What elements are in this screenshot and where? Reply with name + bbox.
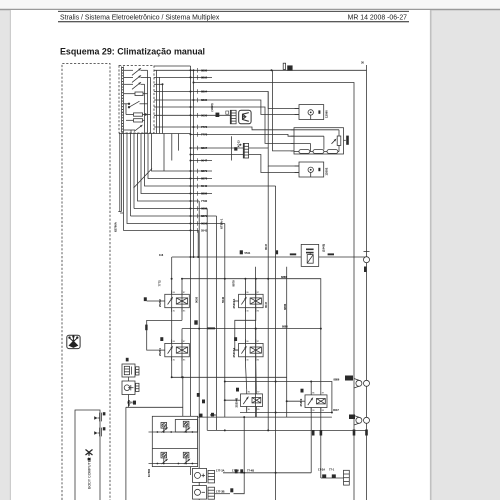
relay column wire 87 R3 [181, 329, 183, 378]
lamp cluster box [152, 416, 197, 466]
drop 309 to relay [310, 382, 312, 391]
wire row 30 feed [154, 69, 367, 71]
rotated component and wire labels [114, 103, 329, 477]
lamp cluster corner mark [199, 414, 202, 418]
svg-text:8886: 8886 [281, 275, 287, 279]
wire to resistor pack pin2 [191, 134, 295, 136]
lamp L1 [161, 423, 167, 433]
wire to aux motor pin1 [191, 148, 300, 166]
relay column links R6 down [311, 408, 343, 479]
drop wire 125 [125, 407, 127, 500]
panel resistor R3 [126, 119, 145, 122]
relay wire 412 [240, 412, 332, 414]
relay 25204B [237, 390, 263, 411]
drop from top feed to resistor pack pin4 [273, 70, 295, 151]
svg-text:7772: 7772 [158, 280, 162, 287]
svg-text:BODY COMPUTER: BODY COMPUTER [88, 457, 92, 489]
svg-text:0047: 0047 [264, 243, 268, 250]
lamp L4 [183, 452, 189, 464]
bus B vertical [193, 70, 195, 257]
stair wire 8 to rail 225 [127, 134, 225, 224]
svg-text:UTBA-1: UTBA-1 [220, 218, 224, 229]
wire to connector block [154, 114, 230, 116]
A/C snowflake indicator box [67, 335, 80, 348]
viewer separator line [0, 9, 500, 11]
wire to aux motor pin2 [191, 155, 300, 173]
rail 225 vertical [224, 224, 226, 418]
diag connector box minus [193, 486, 207, 500]
svg-text:0047: 0047 [201, 159, 208, 163]
blower resistor pack 12091 [291, 128, 349, 154]
panel exit drop bundle [164, 134, 179, 171]
body computer inner module box [75, 410, 100, 500]
body computer dashed enclosure [62, 64, 110, 500]
wire to resistor pack pin1 [154, 127, 294, 130]
relay column wire 87 R1 [181, 279, 183, 321]
svg-text:5541: 5541 [201, 228, 208, 232]
lamp L2 [183, 421, 189, 432]
panel internal riser wires [147, 70, 149, 133]
connector block AG-13 [231, 136, 248, 160]
bottom wire 472 [223, 472, 311, 474]
stair wire 1 [152, 134, 213, 172]
svg-text:77-1: 77-1 [329, 468, 335, 472]
svg-text:25202: 25202 [158, 299, 162, 307]
drop wire 182 [182, 377, 184, 416]
panel bottom bus wire [119, 133, 191, 135]
stair wire 6 to rail 208 [134, 208, 207, 210]
svg-text:8879: 8879 [201, 214, 208, 218]
right rail wire 366 [366, 65, 368, 500]
svg-text:(1943): (1943) [321, 244, 325, 252]
rail 255 vertical [255, 267, 257, 417]
svg-text:0050: 0050 [195, 296, 199, 303]
loop R2-85 to R4-86coil [235, 312, 256, 350]
svg-text:25204B: 25204B [234, 398, 238, 408]
rail 268 vertical [267, 92, 269, 431]
left pin feeds R2 R5 R6 [225, 400, 301, 401]
svg-text:Stralis / Sistema Eletroeletrô: Stralis / Sistema Eletroeletrônico / Sis… [60, 15, 220, 22]
bottom wire 489 [215, 493, 230, 495]
relay column wire 86 feed [171, 257, 173, 377]
svg-text:177-3A: 177-3A [216, 469, 225, 473]
relay column wires R2-R4 [245, 279, 255, 362]
relay column links R5 down [247, 407, 257, 418]
panel switch S5 [124, 125, 142, 131]
motor symbol M logo box [239, 110, 251, 124]
output driver symbol upper [94, 412, 105, 421]
rail 208 vertical [206, 209, 208, 431]
main row 257 wire [172, 256, 301, 258]
svg-text:7790: 7790 [201, 199, 208, 203]
svg-text:AG-13: AG-13 [238, 140, 241, 147]
svg-text:0050: 0050 [201, 222, 208, 226]
diag connector hatch upper [208, 470, 215, 483]
relay 25302 [301, 391, 327, 412]
body computer connector icon [86, 450, 93, 461]
lamp L3 [161, 452, 167, 464]
lamp cluster left pins [149, 432, 153, 464]
svg-text:12090: 12090 [325, 110, 329, 118]
relay wire 381 [225, 382, 332, 413]
bus A vertical [190, 66, 192, 475]
relay 25202A [235, 290, 264, 311]
corner drop wires at panel exit [157, 70, 163, 133]
svg-text:25202A: 25202A [232, 299, 236, 309]
connector block C on bus [230, 110, 236, 124]
stair wire 3 [145, 134, 276, 187]
output driver symbol lower [94, 427, 105, 436]
drop 275 [275, 186, 277, 500]
left pin feed R1 [147, 300, 161, 302]
header rule bottom [58, 21, 409, 23]
svg-text:177-3B: 177-3B [216, 489, 225, 493]
wire to blower motor pin1 [154, 92, 299, 109]
wire to blower motor pin2 [154, 100, 299, 115]
svg-text:0886: 0886 [201, 207, 208, 211]
svg-text:7778: 7778 [201, 132, 208, 136]
svg-text:0050: 0050 [201, 113, 208, 117]
svg-text:116: 116 [159, 253, 164, 257]
stair wire 4 [141, 134, 212, 194]
svg-text:8886: 8886 [282, 325, 288, 329]
wire row 3 [154, 76, 212, 78]
svg-text:5541: 5541 [245, 251, 251, 255]
panel switch S2 [124, 76, 151, 83]
wire row 16 [191, 160, 213, 162]
svg-text:8895: 8895 [201, 98, 208, 102]
rail code marks below 420 connectors [353, 430, 356, 436]
wire to resistor pack pin3 [154, 107, 294, 143]
bottom right connector hatch [344, 470, 350, 485]
svg-text:8892: 8892 [201, 75, 208, 79]
diag connector hatch lower [208, 487, 215, 499]
rail 244 bottom vertical [234, 417, 245, 494]
panel spare pins [119, 134, 121, 212]
relay 25204 [161, 339, 190, 360]
fuse 30 feed [283, 63, 292, 70]
climate control panel unit box (dashed) [119, 66, 154, 134]
wire panel top to bus A [154, 65, 191, 67]
inline connector on rail 366 at 259 [364, 252, 370, 272]
svg-text:0050: 0050 [127, 401, 133, 405]
snowflake glyph [69, 336, 78, 347]
aux motor unit 12092 [295, 162, 324, 177]
svg-text:7772: 7772 [201, 125, 208, 129]
panel switch S1 [124, 69, 148, 76]
stair wire 9 to node 257 [124, 134, 199, 258]
wire main supply to right rail [194, 83, 355, 500]
drop to relay 25302 pin 87 [320, 329, 322, 391]
blower motor unit 12090 [295, 105, 324, 120]
control panel pin strip [120, 67, 122, 133]
lamp cluster bus dots [157, 431, 194, 464]
wire 407 [126, 406, 183, 408]
loop R1-85 to R3-86coil [147, 320, 182, 350]
svg-text:25302: 25302 [299, 398, 303, 406]
wire code ticks on bus rows [197, 68, 199, 233]
bottom wire 430 [207, 429, 366, 431]
svg-text:5540: 5540 [221, 296, 225, 303]
svg-text:8894: 8894 [201, 90, 208, 94]
svg-text:8897: 8897 [201, 146, 208, 150]
svg-text:0047: 0047 [333, 408, 339, 412]
svg-text:K7860: K7860 [147, 468, 151, 477]
svg-text:8886: 8886 [201, 68, 208, 72]
stair wire 2 [148, 134, 212, 179]
sensor box code mark [126, 358, 129, 362]
sensor box lower [122, 381, 139, 395]
diagonal jog wire [134, 169, 153, 189]
relay wire 417 [198, 416, 332, 418]
wire row 5 [154, 83, 163, 85]
viewer top strip [0, 0, 500, 9]
svg-text:5540: 5540 [201, 184, 208, 188]
panel switch S3 [124, 83, 145, 90]
relay 25202 [161, 290, 190, 311]
rail 199 vertical [198, 201, 200, 500]
horizontal micro labels [127, 61, 364, 494]
heater element unit 1943 [301, 244, 366, 266]
sensor drop wire [128, 377, 130, 407]
stair wire 5 [138, 134, 200, 202]
svg-text:77-4B: 77-4B [247, 469, 254, 473]
svg-text:Esquema 29: Climatização manua: Esquema 29: Climatização manual [60, 46, 205, 56]
svg-text:12092: 12092 [325, 167, 329, 175]
relay column links R4-R5 [245, 362, 256, 390]
panel selector switch S4 [124, 101, 148, 108]
svg-text:8878: 8878 [231, 280, 235, 287]
svg-text:25204: 25204 [158, 348, 162, 356]
panel resistor R1 [124, 92, 148, 96]
svg-text:8886: 8886 [283, 303, 287, 310]
svg-text:25203A: 25203A [232, 348, 236, 358]
svg-text:8878: 8878 [201, 177, 208, 181]
svg-text:62786A: 62786A [114, 222, 118, 232]
svg-text:8886: 8886 [334, 378, 340, 382]
inline connector pair at 383 [345, 376, 370, 389]
panel resistor R2 [126, 113, 151, 116]
svg-text:MR 14 2008 -06-27: MR 14 2008 -06-27 [348, 15, 408, 22]
relay collect wire 377 [172, 376, 287, 378]
relay 25203A [235, 339, 264, 360]
header rule top [58, 10, 409, 12]
dark mini squares (bold K labels) [133, 111, 336, 492]
svg-text:(1940): (1940) [210, 103, 214, 111]
relay feed wire 279 [182, 279, 321, 329]
svg-text:8886: 8886 [201, 192, 208, 196]
stair wire 7 and rail 216 vertical [131, 216, 217, 430]
sensor box upper [122, 364, 139, 377]
relay pin number labels [173, 292, 325, 412]
svg-text:0047: 0047 [264, 301, 268, 308]
svg-text:17-3A: 17-3A [318, 468, 325, 472]
svg-text:8879: 8879 [201, 169, 208, 173]
bus row wire codes [201, 68, 208, 232]
relay feed wire 328 [182, 328, 321, 330]
inline connector pair at 420 [349, 415, 370, 426]
diag connector box plus [193, 468, 207, 482]
rail 286 vertical [286, 267, 288, 417]
